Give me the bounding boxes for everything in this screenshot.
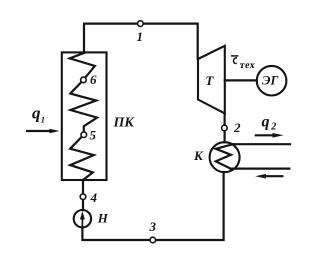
cooling water bottom pipe [230,168,289,170]
wire pump to bottom line, node 3, up to condenser [82,172,223,240]
node 2 [222,125,228,131]
svg-text:1: 1 [41,114,45,124]
svg-text:Т: Т [205,73,214,88]
svg-text:ЭГ: ЭГ [262,72,278,87]
svg-text:Н: Н [97,210,109,225]
wire boiler bottom to pump [82,180,84,210]
cooling water top pipe [232,143,290,145]
q1 arrowhead [50,129,60,134]
svg-text:6: 6 [90,72,97,87]
q1 heat input arrow [27,130,51,132]
svg-text:5: 5 [90,128,97,143]
label l tech work [233,58,237,64]
svg-text:ПК: ПК [113,116,136,131]
q2 arrow [256,134,274,136]
condenser cooling coil zigzag [216,144,233,168]
node 3 [150,237,156,243]
generator EG circle [257,66,287,96]
pump impeller arrow shaft [81,217,83,226]
node 1 [138,21,144,27]
svg-text:К: К [193,148,204,163]
turbine T trapezoid [198,46,225,114]
label l overbar [231,55,238,57]
svg-text:q: q [32,103,41,122]
condenser K circle [210,142,240,172]
boiler ПК rectangle [62,52,107,180]
svg-text:q: q [262,113,270,130]
boiler heating coil zigzag [70,53,97,180]
return arrowhead [255,174,266,179]
node 4 [80,194,86,200]
svg-text:4: 4 [90,190,98,205]
svg-text:2: 2 [233,120,241,135]
wire boiler outlet to node 1 to turbine inlet [84,24,198,60]
cooling water return arrow [264,175,282,177]
node 6 [81,77,87,83]
wire turbine to generator [225,79,257,81]
svg-text:1: 1 [137,29,144,44]
svg-text:2: 2 [270,121,276,132]
pump N circle [74,210,91,227]
q2 arrowhead [273,133,284,138]
node 5 [81,132,87,138]
wire turbine exhaust to node 2 to condenser [224,113,226,142]
svg-text:3: 3 [149,219,157,234]
svg-text:тех: тех [239,60,256,71]
pump arrowhead [80,211,85,219]
